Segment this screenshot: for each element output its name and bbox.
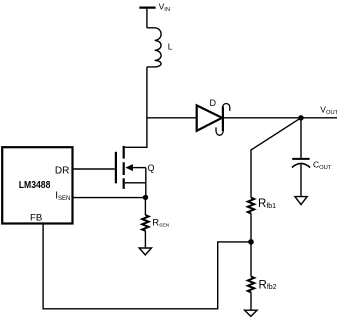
svg-text:DR: DR [55, 166, 69, 177]
svg-text:D: D [210, 98, 217, 108]
svg-text:LM3488: LM3488 [19, 180, 51, 191]
svg-text:FB: FB [30, 212, 42, 223]
svg-text:L: L [168, 41, 173, 51]
svg-text:Q: Q [148, 163, 155, 173]
